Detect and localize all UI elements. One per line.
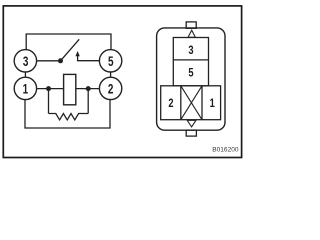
svg-text:B016200: B016200 xyxy=(212,147,239,154)
svg-text:2: 2 xyxy=(168,97,173,111)
svg-text:3: 3 xyxy=(188,44,193,58)
svg-text:5: 5 xyxy=(188,66,193,80)
svg-text:5: 5 xyxy=(108,53,114,69)
svg-text:1: 1 xyxy=(23,81,29,97)
svg-text:3: 3 xyxy=(23,53,29,69)
svg-text:1: 1 xyxy=(210,97,215,111)
svg-text:2: 2 xyxy=(108,81,114,97)
